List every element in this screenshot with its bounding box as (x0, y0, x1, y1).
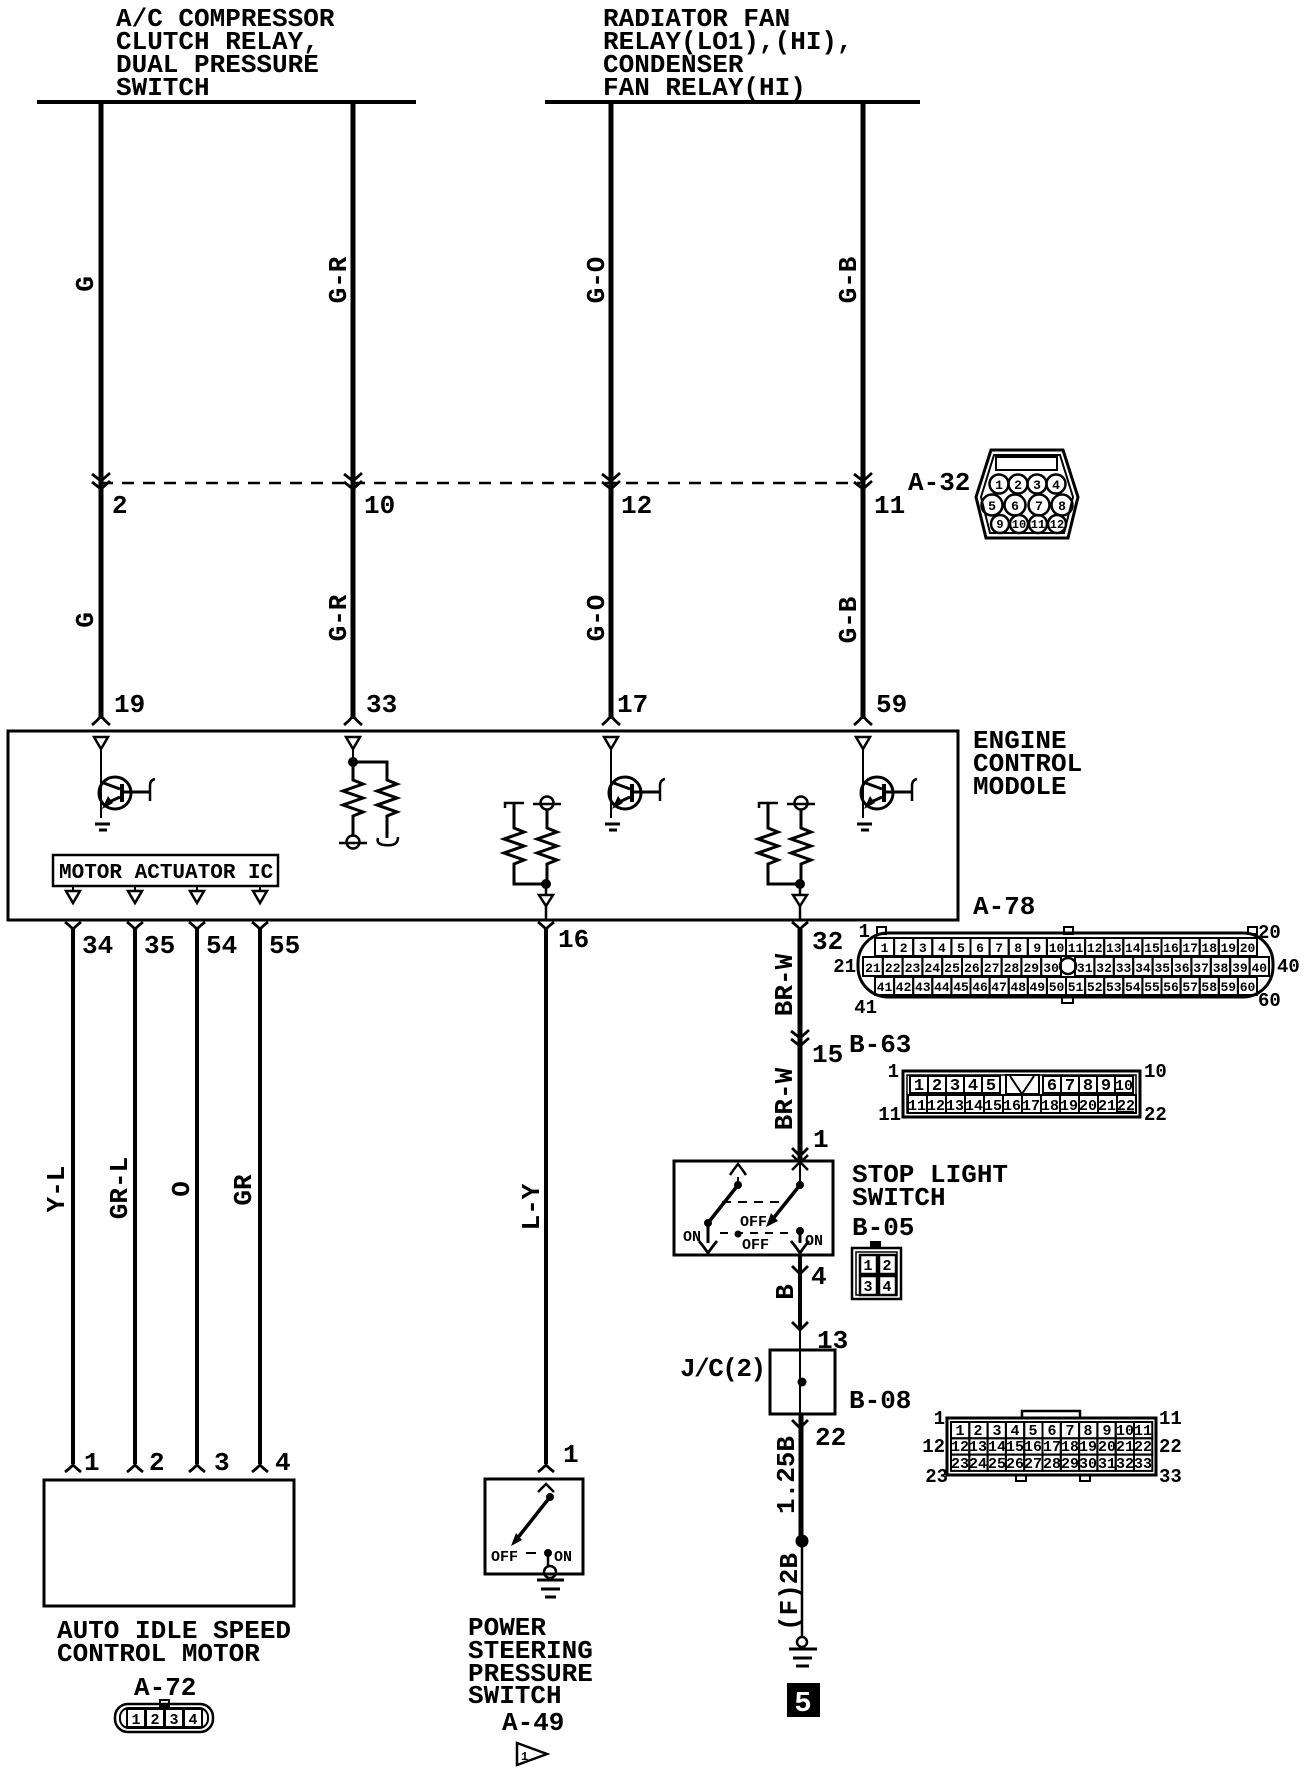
svg-text:37: 37 (1193, 961, 1209, 976)
wire BR-W upper (798, 929, 803, 1160)
svg-text:O: O (167, 1181, 197, 1197)
svg-text:51: 51 (1068, 980, 1084, 995)
svg-text:GR: GR (229, 1174, 259, 1206)
svg-text:2: 2 (900, 941, 908, 956)
svg-text:32: 32 (1096, 961, 1112, 976)
svg-text:27: 27 (1024, 1456, 1042, 1473)
svg-text:8: 8 (1014, 941, 1022, 956)
wire Y-L (71, 929, 75, 1464)
svg-text:9: 9 (996, 518, 1003, 532)
svg-text:9: 9 (1102, 1423, 1111, 1440)
svg-text:20: 20 (1098, 1439, 1116, 1456)
svg-text:34: 34 (82, 931, 113, 961)
svg-text:44: 44 (934, 980, 950, 995)
pin 33 input triangle (346, 737, 360, 749)
svg-text:13: 13 (946, 1098, 964, 1115)
label A/C compressor clutch relay, dual pressure switch (116, 4, 335, 103)
pin 32 output triangle (793, 895, 807, 906)
resistor R3 (504, 803, 546, 884)
svg-text:1: 1 (813, 1125, 829, 1155)
svg-text:2: 2 (973, 1423, 982, 1440)
svg-text:B-05: B-05 (852, 1213, 914, 1243)
wire 1.25B (799, 1414, 804, 1537)
svg-text:54: 54 (206, 931, 237, 961)
svg-text:18: 18 (1061, 1439, 1079, 1456)
svg-text:56: 56 (1163, 980, 1179, 995)
svg-text:24: 24 (924, 961, 940, 976)
svg-text:G-O: G-O (582, 595, 612, 642)
svg-text:21: 21 (1116, 1439, 1134, 1456)
connector B-63 face (903, 1071, 1140, 1117)
stop light switch internals (683, 1155, 823, 1254)
junction dot (F)2B (796, 1535, 809, 1548)
svg-text:22: 22 (815, 1423, 846, 1453)
bus wire left (37, 100, 416, 104)
connector A-32 dashed line (101, 482, 863, 485)
svg-text:15: 15 (1006, 1439, 1024, 1456)
wire B (798, 1255, 802, 1330)
connector A-78 corner labels (833, 921, 1300, 1019)
wire G-R vertical (351, 102, 356, 719)
connector B-08 face (947, 1411, 1156, 1481)
svg-text:5: 5 (957, 941, 965, 956)
svg-text:43: 43 (915, 980, 931, 995)
junction dot R5 R6 (795, 879, 805, 889)
svg-text:20: 20 (1240, 941, 1256, 956)
switch linkage dash (526, 1552, 536, 1554)
svg-text:3: 3 (1033, 478, 1041, 493)
svg-text:3: 3 (950, 1077, 960, 1096)
pin 16 exit mark (538, 922, 554, 929)
svg-text:60: 60 (1240, 980, 1256, 995)
svg-text:12: 12 (922, 1436, 945, 1458)
resistor R5 hook (759, 803, 778, 808)
svg-text:11: 11 (908, 1098, 926, 1115)
auto idle speed control motor box (44, 1480, 294, 1606)
pin 12 arrow (602, 473, 620, 489)
pin 17 entry mark (602, 716, 620, 725)
svg-text:17: 17 (1022, 1098, 1040, 1115)
svg-text:7: 7 (995, 941, 1003, 956)
svg-text:14: 14 (1125, 941, 1141, 956)
svg-text:G-B: G-B (834, 256, 864, 303)
svg-text:1.25B: 1.25B (772, 1436, 802, 1514)
svg-text:(F)2B: (F)2B (775, 1553, 805, 1631)
label radiator fan relay / condenser fan relay (603, 4, 853, 103)
svg-text:22: 22 (1117, 1098, 1135, 1115)
svg-text:31: 31 (1077, 961, 1093, 976)
switch top entry mark (538, 1484, 554, 1492)
svg-text:BR-W: BR-W (770, 1067, 800, 1130)
svg-text:11: 11 (878, 1104, 901, 1126)
resistor R2 end curl (378, 837, 398, 845)
engine control module box (8, 731, 958, 920)
svg-text:28: 28 (1004, 961, 1020, 976)
wire L-Y (544, 929, 548, 1464)
svg-text:57: 57 (1182, 980, 1198, 995)
reference triangle 1 (517, 1743, 547, 1765)
wire G-B vertical (861, 102, 866, 719)
svg-text:22: 22 (1134, 1439, 1152, 1456)
stop light switch box (674, 1161, 833, 1255)
connector A-78 row 3 (875, 977, 1257, 995)
svg-text:1: 1 (859, 921, 870, 943)
svg-text:L-Y: L-Y (517, 1183, 547, 1230)
pin 10 arrow (344, 473, 362, 489)
resistor R5 (758, 803, 800, 884)
pin 32 exit mark (792, 922, 808, 929)
svg-text:15: 15 (1144, 941, 1160, 956)
svg-text:5: 5 (794, 1687, 811, 1720)
pin 32 output wire (799, 884, 802, 920)
svg-text:49: 49 (1029, 980, 1045, 995)
svg-text:Y-L: Y-L (42, 1166, 72, 1213)
svg-text:1: 1 (521, 1750, 528, 1764)
stop light pin 1 mark (792, 1148, 808, 1156)
svg-text:GR-L: GR-L (105, 1157, 135, 1219)
svg-text:OFF: OFF (491, 1549, 518, 1566)
svg-text:10: 10 (364, 491, 395, 521)
resistor R6 (791, 810, 811, 884)
pin 59 input triangle (856, 737, 870, 749)
svg-text:OFF: OFF (742, 1237, 769, 1254)
ground symbol A-49 (537, 1580, 564, 1597)
transistor Q1 (95, 749, 155, 830)
junction dot R1 R2 (348, 757, 358, 767)
pin 22 mark (792, 1420, 808, 1428)
ground circle (544, 1566, 556, 1578)
pin 35 exit mark (127, 922, 143, 929)
connector B-08 cells (951, 1422, 1152, 1471)
svg-text:4: 4 (1010, 1423, 1019, 1440)
power steering pressure switch label (468, 1613, 593, 1711)
svg-text:30: 30 (1079, 1456, 1097, 1473)
svg-text:23: 23 (925, 1466, 948, 1488)
svg-text:4: 4 (188, 1712, 197, 1729)
svg-text:9: 9 (1033, 941, 1041, 956)
svg-text:11: 11 (1159, 1408, 1182, 1430)
switch blade (511, 1493, 554, 1546)
svg-text:24: 24 (969, 1456, 987, 1473)
wire GR (258, 929, 262, 1464)
IC output stems and triangles (66, 886, 267, 903)
motor pin 4 mark (252, 1465, 268, 1472)
svg-text:10: 10 (1012, 518, 1026, 532)
svg-text:22: 22 (1159, 1436, 1182, 1458)
motor actuator IC box (53, 855, 278, 886)
svg-text:4: 4 (275, 1448, 291, 1478)
bus wire right (545, 100, 920, 104)
pin 17 input triangle (604, 737, 618, 749)
svg-text:22: 22 (1144, 1104, 1167, 1126)
svg-text:40: 40 (1251, 961, 1267, 976)
svg-text:15: 15 (812, 1040, 843, 1070)
connector A-78 face (858, 927, 1273, 1003)
svg-text:2: 2 (932, 1077, 942, 1096)
wire O (195, 929, 199, 1464)
pin 55 exit mark (252, 922, 268, 929)
svg-text:42: 42 (896, 980, 912, 995)
svg-text:1: 1 (563, 1440, 579, 1470)
svg-text:G-B: G-B (834, 596, 864, 643)
pin 16 output triangle (539, 895, 553, 906)
svg-text:5: 5 (988, 499, 996, 514)
svg-text:19: 19 (114, 690, 145, 720)
svg-text:16: 16 (1163, 941, 1179, 956)
pin 54 exit mark (189, 922, 205, 929)
svg-text:7: 7 (1065, 1077, 1075, 1096)
svg-text:SWITCH: SWITCH (468, 1681, 562, 1711)
svg-text:7: 7 (1035, 499, 1043, 514)
svg-text:47: 47 (991, 980, 1007, 995)
svg-text:1: 1 (995, 478, 1003, 493)
transistor Q3 (857, 749, 917, 830)
connector B-63 corner labels (878, 1061, 1167, 1126)
svg-text:60: 60 (1258, 990, 1281, 1012)
svg-text:G: G (71, 276, 101, 292)
svg-text:55: 55 (269, 931, 300, 961)
connector A-78 row 2 (863, 957, 1269, 976)
svg-text:19: 19 (1220, 941, 1236, 956)
pin 16 output wire (545, 884, 548, 920)
svg-text:32: 32 (1116, 1456, 1134, 1473)
svg-text:12: 12 (951, 1439, 969, 1456)
svg-text:2: 2 (150, 1712, 159, 1729)
svg-text:15: 15 (984, 1098, 1002, 1115)
svg-text:21: 21 (865, 961, 881, 976)
svg-text:10: 10 (1144, 1061, 1167, 1083)
svg-text:4: 4 (938, 941, 946, 956)
svg-text:19: 19 (1060, 1098, 1078, 1115)
stop light switch name (852, 1160, 1008, 1213)
switch pin 1 mark (538, 1465, 554, 1472)
svg-text:4: 4 (1052, 478, 1060, 493)
svg-text:2: 2 (149, 1448, 165, 1478)
svg-text:SWITCH: SWITCH (116, 73, 210, 103)
svg-text:33: 33 (1116, 961, 1132, 976)
svg-text:17: 17 (1182, 941, 1198, 956)
svg-text:6: 6 (976, 941, 984, 956)
svg-text:3: 3 (169, 1712, 178, 1729)
svg-text:ON: ON (683, 1229, 701, 1246)
connector A-32 face (976, 450, 1078, 538)
svg-text:16: 16 (1024, 1439, 1042, 1456)
pin 2 arrow (92, 473, 110, 489)
pin 11 arrow (854, 473, 872, 489)
wire G vertical (99, 102, 104, 719)
pin 33 entry mark (344, 716, 362, 725)
svg-text:11: 11 (1134, 1423, 1152, 1440)
connector B-05 face (852, 1241, 901, 1299)
svg-text:52: 52 (1087, 980, 1103, 995)
svg-text:8: 8 (1083, 1077, 1093, 1096)
svg-text:B-08: B-08 (849, 1386, 911, 1416)
svg-text:55: 55 (1144, 980, 1160, 995)
resistor R1 (343, 762, 363, 835)
svg-text:1: 1 (84, 1448, 100, 1478)
svg-text:1: 1 (934, 1408, 945, 1430)
motor pin 1 mark (65, 1465, 81, 1472)
pin 19 entry mark (92, 716, 110, 725)
svg-text:2: 2 (112, 491, 128, 521)
pin 15 double arrow (791, 1030, 809, 1046)
svg-text:26: 26 (964, 961, 980, 976)
svg-text:59: 59 (1220, 980, 1236, 995)
svg-text:11: 11 (1068, 941, 1084, 956)
connector A-78 row 1 (875, 938, 1257, 956)
svg-text:41: 41 (877, 980, 893, 995)
auto idle speed control motor label (57, 1616, 291, 1669)
svg-text:30: 30 (1043, 961, 1059, 976)
svg-text:13: 13 (1106, 941, 1122, 956)
svg-text:J/C(2): J/C(2) (680, 1354, 765, 1384)
connector B-63 row 2 (908, 1095, 1136, 1115)
svg-text:5: 5 (1028, 1423, 1037, 1440)
svg-text:4: 4 (968, 1077, 978, 1096)
junction dot R3 R4 (541, 879, 551, 889)
ground symbol bottom (789, 1649, 817, 1666)
resistor R3 hook (505, 803, 524, 808)
junction connector J/C(2) box (770, 1350, 835, 1414)
svg-text:50: 50 (1049, 980, 1065, 995)
svg-text:35: 35 (1154, 961, 1170, 976)
svg-text:17: 17 (617, 690, 648, 720)
svg-text:23: 23 (951, 1456, 969, 1473)
svg-text:3: 3 (919, 941, 927, 956)
svg-text:MODOLE: MODOLE (973, 772, 1067, 802)
resistor R2 (353, 762, 397, 838)
svg-text:29: 29 (1061, 1456, 1079, 1473)
svg-text:10: 10 (1049, 941, 1065, 956)
svg-text:53: 53 (1106, 980, 1122, 995)
svg-text:MOTOR ACTUATOR IC: MOTOR ACTUATOR IC (59, 862, 274, 885)
power steering pressure switch box (485, 1479, 583, 1574)
svg-text:29: 29 (1023, 961, 1039, 976)
svg-text:7: 7 (1065, 1423, 1074, 1440)
svg-text:12: 12 (927, 1098, 945, 1115)
svg-text:39: 39 (1232, 961, 1248, 976)
svg-text:B: B (771, 1284, 801, 1300)
svg-text:18: 18 (1041, 1098, 1059, 1115)
svg-text:1: 1 (914, 1077, 924, 1096)
pin 19 input triangle (94, 737, 108, 749)
svg-text:6: 6 (1047, 1423, 1056, 1440)
svg-text:36: 36 (1174, 961, 1190, 976)
svg-text:12: 12 (1050, 518, 1064, 532)
svg-text:18: 18 (1201, 941, 1217, 956)
svg-text:21: 21 (833, 956, 856, 978)
svg-text:59: 59 (876, 690, 907, 720)
wire to resistors R1 R2 (352, 749, 354, 762)
svg-text:31: 31 (1098, 1456, 1116, 1473)
svg-text:1: 1 (881, 941, 889, 956)
svg-text:1: 1 (863, 1258, 872, 1275)
svg-text:1: 1 (131, 1712, 140, 1729)
svg-text:20: 20 (1079, 1098, 1097, 1115)
svg-text:A-49: A-49 (502, 1708, 564, 1738)
svg-text:17: 17 (1043, 1439, 1061, 1456)
motor pin 2 mark (127, 1465, 143, 1472)
wire (F)2B (801, 1541, 804, 1636)
switch ON dot (544, 1549, 552, 1557)
svg-text:CONTROL MOTOR: CONTROL MOTOR (57, 1639, 260, 1669)
svg-text:45: 45 (953, 980, 969, 995)
switch to ground wire (547, 1553, 550, 1566)
svg-text:10: 10 (1116, 1423, 1134, 1440)
svg-text:1: 1 (888, 1061, 899, 1083)
junction connector dot (798, 1378, 807, 1387)
svg-text:8: 8 (1058, 499, 1066, 514)
svg-text:27: 27 (984, 961, 1000, 976)
ground terminal circle (797, 1637, 807, 1647)
svg-text:13: 13 (969, 1439, 987, 1456)
svg-text:A-78: A-78 (973, 892, 1035, 922)
connector B-08 corner labels (922, 1408, 1182, 1488)
svg-text:34: 34 (1135, 961, 1151, 976)
connector A-72 face (115, 1700, 213, 1732)
svg-text:25: 25 (944, 961, 960, 976)
svg-text:28: 28 (1043, 1456, 1061, 1473)
svg-text:G: G (71, 612, 101, 628)
svg-text:35: 35 (144, 931, 175, 961)
svg-text:SWITCH: SWITCH (852, 1183, 946, 1213)
wire GR-L (133, 929, 137, 1464)
svg-text:G-R: G-R (324, 594, 354, 641)
svg-text:1: 1 (955, 1423, 964, 1440)
connector B-08 cell numbers (951, 1423, 1152, 1473)
svg-text:22: 22 (885, 961, 901, 976)
svg-text:A-72: A-72 (134, 1673, 196, 1703)
resistor R1 terminal circle (347, 836, 360, 849)
svg-text:21: 21 (1098, 1098, 1116, 1115)
svg-text:16: 16 (1003, 1098, 1021, 1115)
svg-text:B-63: B-63 (849, 1030, 911, 1060)
svg-text:4: 4 (882, 1279, 891, 1296)
svg-text:9: 9 (1101, 1077, 1111, 1096)
svg-text:11: 11 (1031, 518, 1045, 532)
svg-text:19: 19 (1079, 1439, 1097, 1456)
svg-text:BR-W: BR-W (770, 953, 800, 1016)
transistor Q2 (605, 749, 665, 830)
svg-text:3: 3 (214, 1448, 230, 1478)
pin 13 mark (792, 1322, 808, 1330)
svg-text:33: 33 (1159, 1466, 1182, 1488)
svg-text:3: 3 (992, 1423, 1001, 1440)
svg-text:A-32: A-32 (908, 468, 970, 498)
engine control module name (973, 726, 1082, 802)
svg-text:46: 46 (972, 980, 988, 995)
resistor R6 terminal circle (795, 797, 808, 810)
svg-text:8: 8 (1083, 1423, 1092, 1440)
svg-text:41: 41 (854, 997, 877, 1019)
svg-text:14: 14 (965, 1098, 983, 1115)
svg-text:10: 10 (1115, 1078, 1133, 1095)
wire G-O vertical (609, 102, 614, 719)
svg-text:48: 48 (1010, 980, 1026, 995)
svg-text:6: 6 (1011, 499, 1019, 514)
svg-text:2: 2 (882, 1258, 891, 1275)
resistor R4 (537, 810, 557, 884)
motor pin 3 mark (189, 1465, 205, 1472)
svg-text:FAN RELAY(HI): FAN RELAY(HI) (603, 73, 806, 103)
svg-text:G-O: G-O (582, 257, 612, 304)
svg-text:2: 2 (1014, 478, 1022, 493)
svg-text:20: 20 (1258, 922, 1281, 944)
svg-text:25: 25 (988, 1456, 1006, 1473)
pin 34 exit mark (65, 922, 81, 929)
svg-text:11: 11 (874, 491, 905, 521)
svg-text:14: 14 (988, 1439, 1006, 1456)
